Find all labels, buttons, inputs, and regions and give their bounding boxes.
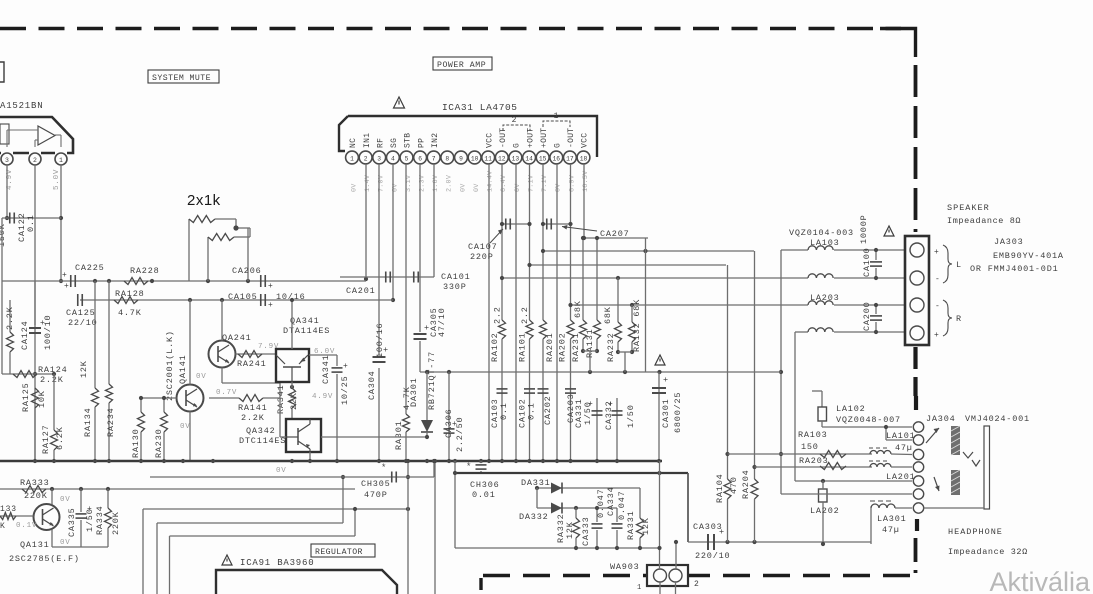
capacitor CA103: [497, 388, 508, 390]
jack contact circles: [913, 422, 923, 432]
svg-text:+: +: [268, 301, 274, 310]
svg-text:CA200: CA200: [862, 301, 872, 331]
inductor R+ unnamed: [808, 328, 833, 332]
pin 14 LA4705: [523, 151, 536, 164]
svg-text:LA202: LA202: [810, 506, 840, 516]
capacitor CH305: [391, 472, 393, 483]
svg-text:2SC2785(E.F): 2SC2785(E.F): [9, 554, 80, 564]
capacitor CA331: [596, 398, 598, 461]
wire output y278 L-: [502, 277, 808, 279]
capacitor CA102: [524, 388, 535, 390]
svg-text:2.2K: 2.2K: [40, 375, 64, 385]
svg-text:Impeadance 32Ω: Impeadance 32Ω: [948, 547, 1028, 557]
svg-text:220K: 220K: [111, 511, 121, 535]
wire x455 down: [454, 461, 456, 548]
wire riser x727: [727, 265, 729, 479]
wire riser x754: [754, 251, 756, 479]
warning triangle ICA91: [222, 555, 232, 565]
svg-text:CA341: CA341: [321, 354, 331, 384]
svg-text:22K: 22K: [289, 392, 299, 410]
svg-text:PP: PP: [417, 138, 426, 148]
jack switch chevrons: [963, 452, 973, 458]
svg-text:0.1: 0.1: [499, 402, 509, 420]
wire QA131 base: [0, 515, 34, 517]
svg-text:+OUT: +OUT: [540, 128, 549, 148]
svg-text:VMJ4024-001: VMJ4024-001: [965, 414, 1030, 424]
jack sleeve bar: [984, 426, 990, 509]
svg-text:R: R: [956, 314, 962, 324]
capacitor CA207: [543, 223, 571, 225]
pin 4 LA4705: [387, 151, 400, 164]
resistor RA125: [32, 388, 39, 408]
transistor QA241: [209, 341, 236, 368]
wire 1k join: [235, 219, 237, 228]
wire output y265: [530, 264, 727, 266]
resistor RA334: [107, 489, 109, 508]
svg-text:47µ: 47µ: [895, 443, 913, 453]
svg-text:REGULATOR: REGULATOR: [315, 548, 363, 557]
svg-text:16: 16: [553, 155, 561, 162]
svg-text:4.7K: 4.7K: [118, 308, 142, 318]
jack row6: [781, 493, 912, 495]
jack row3 RA103 LA101: [728, 453, 873, 455]
svg-text:1.4V: 1.4V: [364, 174, 372, 192]
page border dashed right: [914, 65, 918, 232]
svg-text:1/50: 1/50: [85, 508, 95, 532]
svg-text:0.1: 0.1: [26, 214, 36, 232]
svg-text:15: 15: [539, 155, 547, 162]
svg-text:0V: 0V: [60, 539, 71, 547]
pin 7 LA4705: [427, 151, 440, 164]
svg-text:SG: SG: [390, 138, 399, 148]
wire nest1: [143, 508, 408, 510]
svg-text:Impeadance 8Ω: Impeadance 8Ω: [947, 216, 1021, 226]
capacitor CH306: [480, 461, 482, 463]
pin 3 A1521BN: [1, 153, 13, 165]
svg-text:7.1V: 7.1V: [541, 174, 549, 192]
resistor 1k B: [207, 237, 209, 281]
regulator IC body: [216, 570, 397, 594]
capacitor CA301: [658, 372, 660, 461]
svg-text:0.7V: 0.7V: [216, 389, 237, 397]
pin 10 LA4705: [468, 151, 481, 164]
capacitor CA304: [373, 356, 386, 358]
pin 15 LA4705: [536, 151, 549, 164]
svg-text:CA107: CA107: [468, 242, 498, 252]
svg-text:CA101: CA101: [441, 272, 471, 282]
svg-text:1/50: 1/50: [626, 404, 636, 428]
wire row y477: [150, 476, 434, 478]
wire QA131 row y489: [0, 488, 355, 490]
svg-text:10/25: 10/25: [340, 375, 350, 405]
terminal circle y278: [910, 271, 924, 285]
pin 2 LA4705: [359, 151, 372, 164]
svg-text:2.2K: 2.2K: [241, 413, 265, 423]
svg-text:WA903: WA903: [610, 562, 640, 572]
wire output y238: [584, 237, 648, 239]
svg-text:RA301: RA301: [394, 420, 404, 450]
svg-text:CA124: CA124: [20, 320, 30, 350]
svg-text:CA303: CA303: [693, 522, 723, 532]
capacitor CA100: [875, 250, 877, 260]
terminal circle y250: [910, 243, 924, 257]
svg-text:IN1: IN1: [363, 133, 372, 148]
wire QA341 out right: [309, 354, 337, 356]
svg-text:17: 17: [566, 155, 574, 162]
wire nest3: [170, 535, 356, 537]
wire pin13 down: [515, 164, 517, 461]
terminal circle y305: [910, 298, 924, 312]
svg-text:RA228: RA228: [130, 266, 160, 276]
wire bracket RA231/RA131: [583, 350, 597, 352]
wire riser x781: [780, 250, 782, 494]
wire x2 down: [1, 281, 3, 374]
svg-text:68K: 68K: [603, 306, 613, 324]
svg-text:DTA114ES: DTA114ES: [283, 326, 330, 336]
svg-text:RA130: RA130: [131, 428, 141, 458]
svg-text:CH306: CH306: [470, 480, 500, 490]
svg-text:CA125: CA125: [66, 308, 96, 318]
svg-text:CA306: CA306: [444, 408, 454, 438]
capacitor CA203: [565, 388, 576, 390]
svg-text:12K: 12K: [79, 360, 89, 378]
svg-text:9: 9: [459, 155, 463, 162]
pin 11 LA4705: [482, 151, 495, 164]
svg-text:CA105: CA105: [228, 292, 258, 302]
resistor RA102: [499, 320, 506, 339]
svg-text:ICA31 LA4705: ICA31 LA4705: [442, 102, 518, 113]
svg-text:DA301: DA301: [409, 377, 419, 407]
label box SYSTEM MUTE: [148, 70, 219, 83]
wire pin11 VCC down: [488, 164, 490, 461]
pin 1 LA4705: [346, 151, 359, 164]
wire output y251: [543, 250, 754, 252]
resistor 2.2K col: [9, 300, 11, 332]
wire QA131 bottom row y547: [52, 546, 108, 548]
wire bracket RA232/RA132: [618, 351, 632, 353]
wire output y305 R-: [571, 304, 809, 306]
wire pin17 down: [570, 164, 572, 320]
jack arrow up: [926, 428, 939, 443]
wire QA131 collector: [51, 489, 53, 505]
wire QA141 collector: [189, 300, 191, 385]
svg-text:A1521BN: A1521BN: [0, 101, 43, 111]
wire pin15 down: [542, 164, 544, 320]
svg-text:12: 12: [498, 155, 506, 162]
svg-text:CA332: CA332: [604, 400, 614, 430]
diode DA332: [551, 503, 562, 514]
wire pin16 down: [556, 164, 558, 461]
transistor QA131: [34, 504, 60, 530]
jack row4 RA203: [755, 466, 873, 468]
svg-text:CA334: CA334: [606, 486, 616, 516]
wire pin7 stub CA201: [433, 164, 435, 277]
svg-text:SYSTEM MUTE: SYSTEM MUTE: [152, 74, 211, 83]
thick rail y473: [455, 472, 688, 474]
svg-text:RA204: RA204: [741, 469, 751, 499]
resistor RA231: [582, 238, 584, 320]
svg-text:RA331: RA331: [626, 510, 636, 540]
svg-text:RA341: RA341: [276, 384, 286, 414]
wire riser x795: [794, 332, 796, 481]
svg-text:2: 2: [512, 116, 517, 125]
svg-text:1: 1: [350, 155, 354, 162]
svg-text:6.9V: 6.9V: [568, 174, 576, 192]
svg-text:CA335: CA335: [67, 507, 77, 537]
svg-text:47µ: 47µ: [882, 525, 900, 535]
svg-text:220K: 220K: [24, 491, 48, 501]
resistor RA201: [540, 320, 547, 339]
svg-text:0V: 0V: [514, 183, 522, 192]
internal box A1521BN: [0, 124, 9, 144]
capacitor CA200: [875, 305, 877, 314]
svg-text:QA141: QA141: [178, 354, 188, 384]
resistor 1k A: [188, 219, 190, 281]
svg-text:RA230: RA230: [154, 428, 164, 458]
svg-text:0.01: 0.01: [472, 490, 496, 500]
svg-text:DTC114ES: DTC114ES: [239, 436, 286, 446]
svg-text:4: 4: [391, 155, 395, 162]
component LA202: [819, 489, 828, 502]
warning triangle CA301: [655, 355, 665, 365]
transistor QA141: [177, 385, 204, 412]
wire pin3 down CA304: [378, 164, 380, 355]
svg-text:+: +: [343, 362, 349, 371]
svg-text:CA225: CA225: [75, 263, 105, 273]
wire riser x645: [645, 238, 647, 372]
terminal circle y333: [910, 326, 924, 340]
svg-text:10K: 10K: [37, 390, 47, 408]
svg-text:0V: 0V: [276, 467, 287, 475]
label box POWER AMP: [433, 57, 492, 70]
svg-text:RA104: RA104: [715, 473, 725, 503]
svg-text:5: 5: [405, 155, 409, 162]
svg-text:LA301: LA301: [877, 514, 907, 524]
wire WA903 pins: [659, 461, 661, 569]
svg-text:220/10: 220/10: [695, 551, 730, 561]
page border dashed top: [0, 27, 901, 30]
resistor RA241: [236, 353, 277, 355]
svg-text:330P: 330P: [443, 282, 467, 292]
pin 2 A1521BN: [29, 153, 41, 165]
svg-text:+: +: [268, 282, 274, 291]
capacitor CA122: [2, 217, 61, 219]
svg-text:8: 8: [445, 155, 449, 162]
svg-text:CH305: CH305: [361, 479, 391, 489]
svg-text:3: 3: [5, 157, 9, 164]
pin 16 LA4705: [550, 151, 563, 164]
wire QA141 base: [141, 397, 177, 399]
svg-text:133: 133: [0, 505, 17, 514]
power-amp IC LA4705 body: [339, 116, 597, 157]
svg-text:G: G: [513, 143, 522, 148]
svg-text:RA101: RA101: [518, 332, 528, 362]
svg-text:+: +: [62, 271, 68, 280]
warning triangle speaker: [884, 226, 894, 236]
jack row5: [795, 480, 912, 482]
svg-text:2.2K: 2.2K: [5, 306, 15, 330]
svg-text:14: 14: [525, 155, 533, 162]
capacitor CA333: [596, 508, 598, 522]
pin 6 LA4705: [414, 151, 427, 164]
wire RA141 to QA342 base: [279, 398, 281, 437]
svg-text:G: G: [554, 143, 563, 148]
svg-text:Aktivália: Aktivália: [989, 567, 1091, 594]
op-amp triangle inside A1521BN: [38, 126, 55, 145]
svg-text:-: -: [935, 275, 941, 284]
main input wire y281: [2, 280, 366, 282]
wire QA131 emitter: [51, 530, 53, 548]
connector JA303 speaker block: [905, 236, 929, 345]
wire nest2: [157, 522, 343, 524]
svg-text:JA303: JA303: [994, 237, 1024, 247]
svg-text:CA206: CA206: [232, 266, 262, 276]
resistor RA141: [209, 397, 239, 399]
wire R+ speaker feed: [795, 331, 808, 333]
svg-text:68K: 68K: [573, 300, 583, 318]
wire pin3 A1521 down: [6, 165, 8, 218]
pin 17 LA4705: [564, 151, 577, 164]
svg-text:47/10: 47/10: [437, 307, 447, 337]
op-amp IC A1521BN body: [0, 117, 73, 153]
svg-text:+: +: [934, 248, 940, 257]
resistor RA132: [631, 305, 633, 322]
resistor RA228: [124, 278, 148, 285]
wire CA341 down: [336, 374, 338, 461]
svg-text:RA127: RA127: [41, 424, 51, 454]
resistor RA332: [575, 508, 577, 518]
label box REGULATOR: [311, 544, 375, 557]
svg-text:RA132 68K: RA132 68K: [632, 299, 642, 352]
svg-text:12K: 12K: [641, 517, 651, 535]
svg-text:2.2: 2.2: [520, 306, 530, 324]
svg-text:QA341: QA341: [290, 316, 320, 326]
svg-text:STB: STB: [404, 133, 413, 148]
svg-text:3: 3: [377, 155, 381, 162]
svg-text:RA124: RA124: [38, 365, 68, 375]
wire rail y372: [420, 371, 781, 373]
svg-text:QA342: QA342: [246, 426, 276, 436]
svg-text:0.047: 0.047: [596, 488, 606, 518]
svg-text:1: 1: [637, 584, 642, 592]
inductor L- unnamed: [808, 274, 833, 278]
svg-text:-OUT: -OUT: [567, 128, 576, 148]
svg-text:SPEAKER: SPEAKER: [947, 203, 990, 213]
svg-text:+OUT: +OUT: [526, 128, 535, 148]
svg-text:CA304: CA304: [367, 370, 377, 400]
svg-text:OR FMMJ4001-0D1: OR FMMJ4001-0D1: [970, 264, 1059, 274]
wire QA341 top to y300: [291, 300, 293, 349]
resistor RA204: [751, 479, 758, 499]
svg-text:1: 1: [554, 112, 559, 121]
brace L: [943, 245, 952, 283]
wire QA141 emitter: [189, 412, 191, 462]
svg-text:RA333: RA333: [20, 478, 50, 488]
svg-text:0V: 0V: [196, 373, 207, 381]
svg-text:470P: 470P: [364, 490, 388, 500]
svg-text:RA232: RA232: [606, 332, 616, 362]
svg-text:RA334: RA334: [95, 505, 105, 535]
capacitor CA341: [336, 355, 338, 366]
svg-text:L: L: [956, 260, 962, 270]
svg-text:1000P: 1000P: [859, 214, 869, 244]
diode DA331: [551, 483, 562, 494]
svg-text:0V: 0V: [555, 183, 563, 192]
svg-text:-OUT: -OUT: [499, 128, 508, 148]
capacitor CA335: [80, 489, 82, 512]
svg-text:0V: 0V: [350, 183, 358, 192]
arrow to CA207: [562, 227, 597, 232]
svg-text:4.9V: 4.9V: [312, 393, 333, 401]
page border dashed bottom: [478, 574, 910, 577]
capacitor CA303: [707, 534, 709, 550]
resistor RA232: [617, 278, 619, 322]
capacitor CA225: [70, 275, 72, 287]
svg-text:RA125: RA125: [21, 382, 31, 412]
svg-text:CA333: CA333: [581, 516, 591, 546]
svg-text:10: 10: [471, 155, 479, 162]
svg-text:LA101: LA101: [886, 431, 916, 441]
svg-text:2SC2001(L.K): 2SC2001(L.K): [165, 330, 175, 401]
svg-text:RA203: RA203: [799, 456, 829, 466]
svg-text:VCC: VCC: [485, 133, 494, 148]
svg-text:RA231: RA231: [571, 332, 581, 362]
svg-text:1: 1: [59, 157, 63, 164]
warning triangle ICA31: [394, 97, 405, 108]
page border top-right corner: [880, 29, 916, 58]
svg-text:RB721QT-77: RB721QT-77: [427, 351, 437, 410]
wire x688 down: [687, 473, 689, 542]
bracket group 2 over pins 12-14: [503, 125, 530, 131]
svg-text:2.2: 2.2: [493, 306, 503, 324]
svg-text:100/16: 100/16: [375, 323, 385, 358]
pin 9 LA4705: [455, 151, 468, 164]
svg-text:CA202: CA202: [543, 395, 553, 425]
pin 3 LA4705: [373, 151, 386, 164]
wire QA342 emitter down: [309, 452, 311, 461]
wire QA241 collector: [221, 300, 223, 341]
signal wire y300: [80, 299, 393, 301]
svg-text:2: 2: [364, 155, 368, 162]
wire feedback A1521BN: [7, 129, 38, 131]
resistor RA234: [108, 281, 110, 384]
svg-text:RA201: RA201: [545, 332, 555, 362]
svg-text:12K: 12K: [565, 521, 575, 539]
jack contact row2: [885, 427, 887, 440]
arrow to CA107: [490, 229, 503, 243]
svg-text:DA332: DA332: [519, 512, 549, 522]
svg-text:13: 13: [512, 155, 520, 162]
jack arrow down: [934, 477, 939, 491]
jack hatched bar 2: [951, 470, 960, 495]
svg-text:RA103: RA103: [798, 430, 828, 440]
diode DA301: [426, 372, 428, 420]
capacitor CA305: [419, 164, 421, 332]
svg-text:RA141: RA141: [238, 403, 268, 413]
wire x435 down: [434, 461, 436, 594]
svg-text:1/50: 1/50: [583, 401, 593, 425]
ground bus y461: [0, 460, 662, 463]
svg-text:6800/25: 6800/25: [673, 392, 683, 433]
wire L+ speaker feed: [781, 249, 808, 251]
wire QA342 collector right to DA301: [321, 436, 427, 438]
wire pin14 down: [529, 164, 531, 320]
capacitor CA124: [34, 281, 36, 325]
svg-text:220P: 220P: [470, 252, 494, 262]
wire pin2 A1521 down: [34, 165, 36, 461]
pin 18 LA4705: [577, 151, 590, 164]
capacitor CA105: [260, 294, 262, 306]
